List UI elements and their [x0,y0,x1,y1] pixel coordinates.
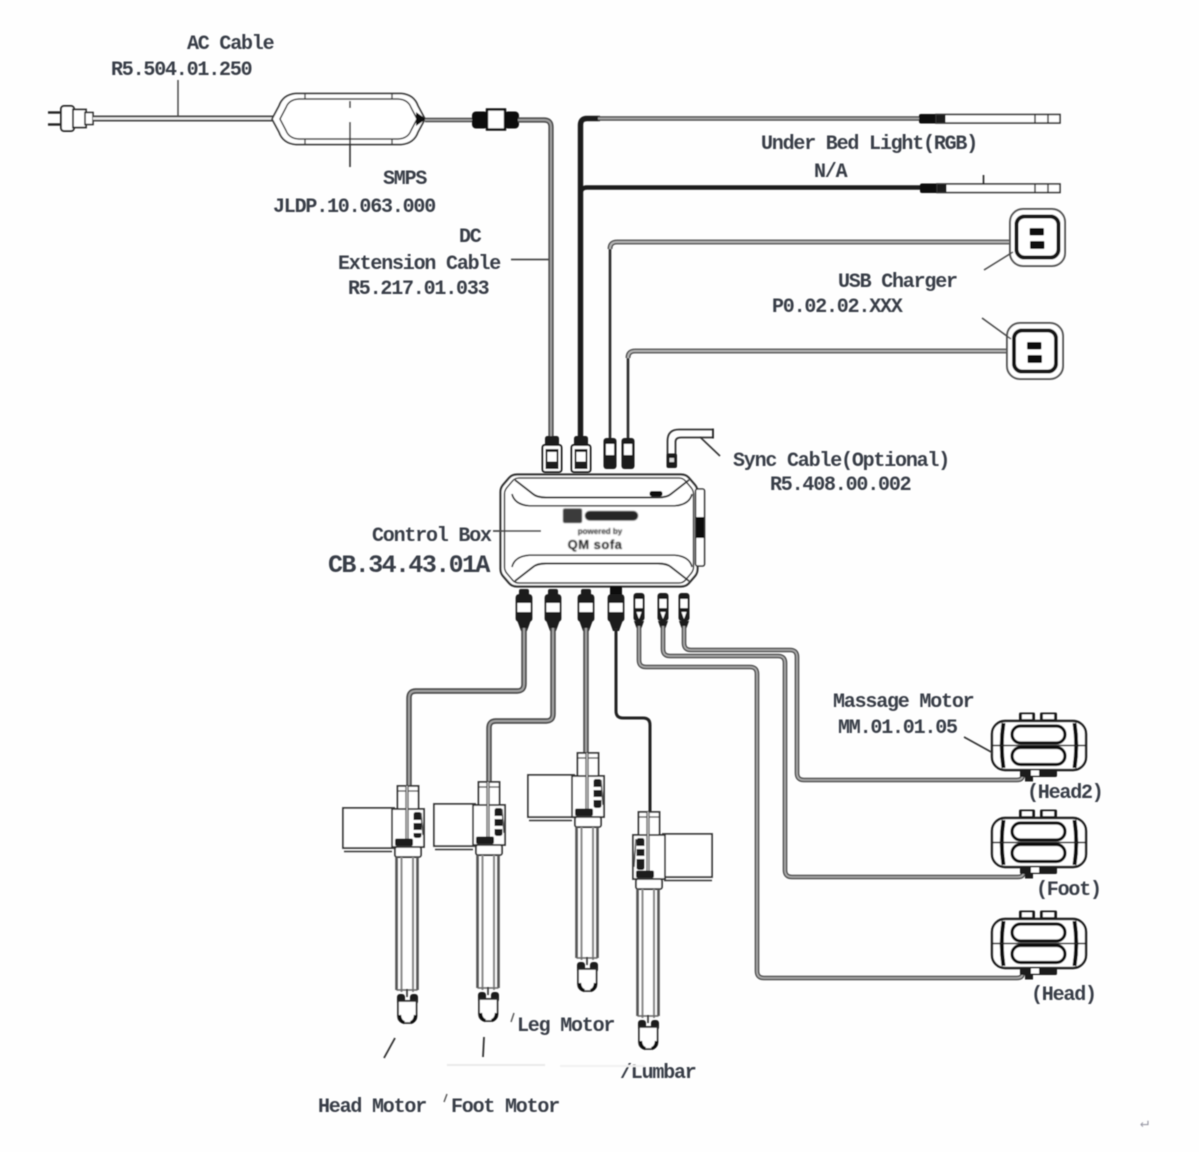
connector bottom 7 (massage head2) [679,593,690,628]
svg-text:R5.217.01.033: R5.217.01.033 [348,278,489,301]
label Head Motor [318,1096,426,1119]
svg-text:Head Motor: Head Motor [318,1096,426,1119]
label AC Cable [111,33,275,82]
control box logo print [563,509,638,553]
leader massage motor [964,737,993,753]
leader AC cable [177,80,179,116]
wire USB charger 2 [628,351,1008,440]
wire massage foot [663,626,1024,877]
label Foot [1036,879,1101,902]
svg-text:CB.34.43.01A: CB.34.43.01A [328,551,490,580]
connector bottom 3 (leg motor) [579,589,594,631]
svg-text:↵: ↵ [1140,1115,1149,1132]
svg-text:R5.504.01.250: R5.504.01.250 [111,59,252,82]
leader USB 1 [984,252,1013,270]
connector bottom 5 (massage head) [634,593,645,628]
leader sync cable [700,437,720,456]
DC output wire [425,118,474,123]
LED strip connector RGB [919,114,1060,124]
connector top 1 (DC in) [543,436,562,472]
svg-text:SMPS: SMPS [383,168,427,191]
connector bottom 1 (head motor) [517,589,532,631]
wire under bed light N/A [581,188,923,195]
leader DC extension [511,259,549,261]
label Control Box [328,525,492,580]
svg-text:QM sofa: QM sofa [568,537,623,552]
wire massage head [639,626,1023,978]
svg-text:Foot Motor: Foot Motor [451,1096,559,1119]
sync cable elbow [667,429,714,469]
connector bottom 4 (lumbar motor) [609,586,624,631]
wire massage head2 [684,626,1023,780]
massage motor Foot [992,810,1086,879]
svg-text:Massage Motor: Massage Motor [833,691,974,714]
label Massage Motor [833,691,974,740]
svg-text:powered by: powered by [578,527,623,536]
connector top 3 (USB1) [604,438,617,469]
label Head2 [1027,782,1103,805]
leader foot motor [444,1037,484,1102]
label DC Extension Cable [338,226,501,301]
massage motor Head2 [992,713,1086,782]
svg-text:(Head): (Head) [1031,984,1096,1007]
connector top 2 (light out) [572,436,591,472]
svg-text:Leg Motor: Leg Motor [517,1015,614,1038]
connector bottom 2 (foot motor) [546,589,561,631]
AC cable wire [93,116,273,122]
wire under bed light RGB [581,119,922,438]
label USB Charger [772,271,957,319]
leader SMPS [349,101,351,167]
wire USB charger 1 [610,242,1011,440]
SMPS power adapter [272,94,426,145]
AC plug [48,106,93,131]
USB charger port 1 [1010,209,1065,266]
DC inline connector [472,110,519,130]
faint marks [447,1065,645,1066]
return mark [1140,1115,1149,1132]
svg-text:Control Box: Control Box [372,525,492,548]
leader control box [493,530,541,532]
svg-text:DC: DC [459,226,482,249]
svg-text:P0.02.02.XXX: P0.02.02.XXX [772,296,903,319]
actuator Head Motor [343,786,424,1023]
wire DC extension cable to control box [518,120,551,437]
label Lumbar [620,1062,696,1085]
svg-text:AC Cable: AC Cable [187,33,275,56]
actuator Foot Motor [434,782,505,1021]
label Sync Cable [733,450,949,497]
label SMPS [273,168,435,219]
LED strip connector N/A [920,175,1060,193]
leader leg motor [511,1013,514,1022]
svg-text:(Head2): (Head2) [1027,782,1103,805]
svg-text:Extension Cable: Extension Cable [338,253,501,276]
actuator Lumbar Motor [633,812,712,1049]
svg-text:R5.408.00.002: R5.408.00.002 [770,474,911,497]
USB charger port 2 [1007,323,1063,379]
label Under Bed Light [761,133,977,184]
actuator Leg Motor [528,753,604,991]
wire leg motor [583,628,588,756]
connector bottom 6 (massage foot) [658,593,669,628]
label Head [1031,984,1096,1007]
svg-text:Under Bed Light(RGB): Under Bed Light(RGB) [761,133,977,156]
control box body [501,475,698,587]
svg-text:N/A: N/A [814,161,848,184]
leader USB 2 [982,318,1011,339]
leader head motor [384,1038,395,1058]
svg-text:MM.01.01.05: MM.01.01.05 [838,717,957,740]
label Leg Motor [517,1015,614,1038]
svg-text:Sync Cable(Optional): Sync Cable(Optional) [733,450,949,473]
wire foot motor [489,628,553,784]
control box side tab [696,489,705,566]
massage motor Head [992,911,1086,980]
svg-text:USB Charger: USB Charger [838,271,957,294]
svg-text:(Foot): (Foot) [1036,879,1101,902]
svg-text:JLDP.10.063.000: JLDP.10.063.000 [273,196,435,219]
connector top 4 (USB2) [622,438,635,469]
label Foot Motor [451,1096,559,1119]
wire lumbar motor [616,628,650,814]
wire head motor [409,628,524,788]
